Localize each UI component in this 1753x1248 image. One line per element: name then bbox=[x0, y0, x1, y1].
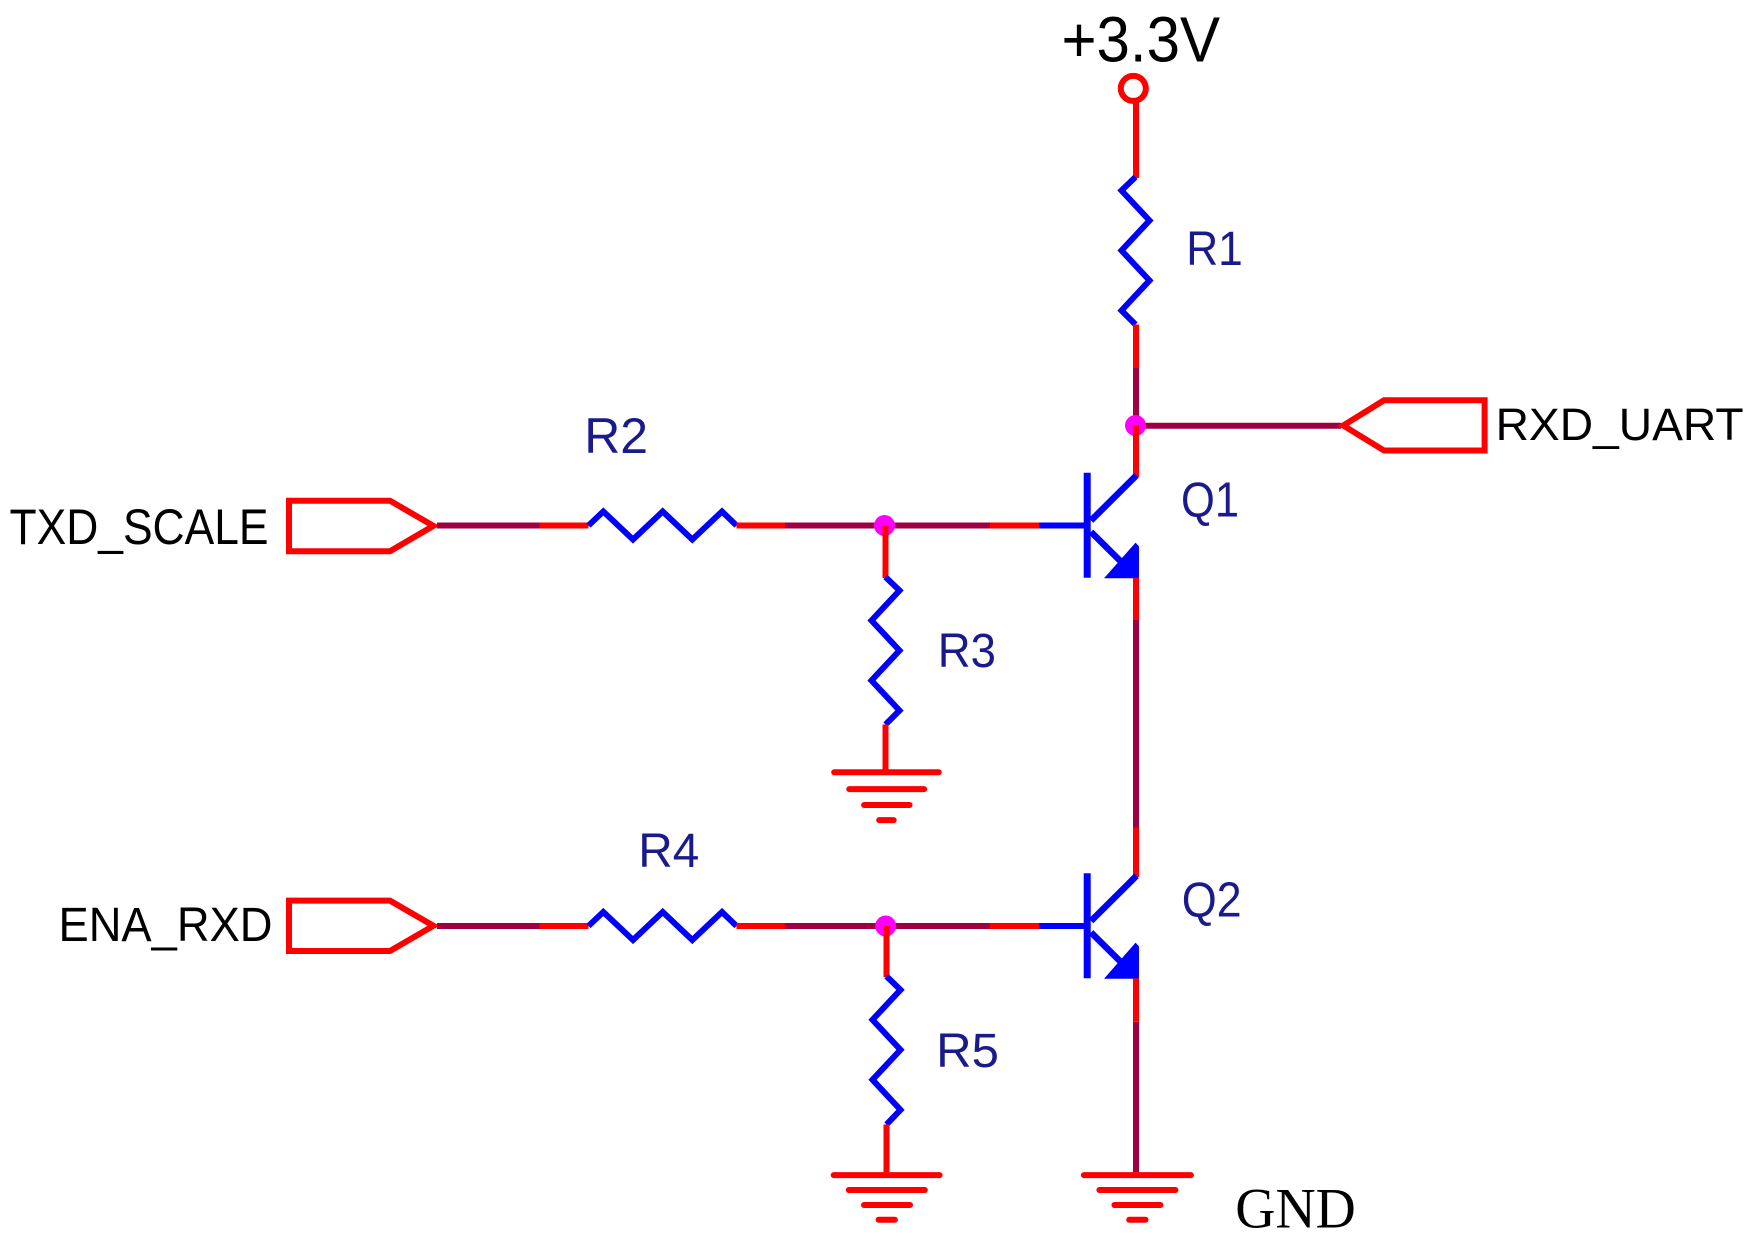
svg-text:ENA_RXD: ENA_RXD bbox=[59, 899, 273, 952]
Q2 base bar bbox=[1084, 873, 1091, 978]
svg-text:TXD_SCALE: TXD_SCALE bbox=[10, 499, 269, 555]
Q1 collector diagonal bbox=[1091, 475, 1137, 520]
svg-text:R3: R3 bbox=[938, 625, 996, 678]
resistor R5 bbox=[873, 976, 901, 1124]
wire node B1 down to R3 bbox=[883, 526, 889, 579]
wire VCC circle to R1 bbox=[1133, 100, 1139, 178]
svg-text:Q2: Q2 bbox=[1182, 874, 1242, 928]
port ENA_RXD bbox=[289, 901, 433, 951]
svg-text:R4: R4 bbox=[638, 825, 699, 878]
resistor R4 bbox=[589, 912, 737, 940]
Q2 emitter arrowhead bbox=[1104, 943, 1139, 979]
wire maroon to Q2 base (red part) bbox=[990, 923, 1039, 929]
svg-text:R5: R5 bbox=[936, 1025, 999, 1078]
Q1 base bar bbox=[1084, 473, 1091, 578]
transistor Q1 bbox=[1039, 473, 1139, 579]
power terminal circle +3.3V bbox=[1121, 76, 1146, 101]
Q1 emitter arrowhead bbox=[1104, 543, 1139, 579]
wire node B2 down to R5 bbox=[884, 926, 890, 977]
wire Q1 emitter to Q2 collector (maroon part) bbox=[1133, 619, 1139, 827]
wire R5 to ground bbox=[884, 1125, 890, 1173]
wire ENA_RXD to R4 (red part) bbox=[540, 923, 589, 929]
svg-text:R1: R1 bbox=[1186, 223, 1243, 276]
wire R3 to ground bbox=[883, 725, 889, 773]
svg-text:Q1: Q1 bbox=[1181, 474, 1239, 528]
Q1 emitter diagonal bbox=[1091, 532, 1133, 574]
svg-text:R2: R2 bbox=[584, 408, 648, 464]
wire node RXD to Q1 collector bbox=[1133, 426, 1139, 478]
wire R1 to node RXD (red part) bbox=[1133, 325, 1139, 369]
node B1 junction bbox=[874, 515, 895, 536]
wire R2 to node B1 (red part) bbox=[737, 523, 786, 529]
resistor R1 bbox=[1122, 177, 1150, 325]
svg-text:GND: GND bbox=[1235, 1178, 1356, 1241]
wire TXD_SCALE to R2 (maroon part) bbox=[437, 523, 540, 529]
ground below R3 bbox=[834, 772, 939, 820]
transistor Q2 bbox=[1039, 873, 1139, 979]
wire to Q2 collector (red part) bbox=[1133, 828, 1139, 878]
wire ENA_RXD to R4 (maroon part) bbox=[437, 923, 540, 929]
wire R2 to node B1 and on to Q1 base (maroon part) bbox=[785, 523, 990, 529]
ground below Q2 bbox=[1084, 1175, 1191, 1220]
svg-text:+3.3V: +3.3V bbox=[1062, 4, 1221, 76]
ground below R5 bbox=[834, 1175, 940, 1220]
wire Q2 emitter to ground (maroon part) bbox=[1133, 1022, 1139, 1172]
wire maroon to Q1 base (red part) bbox=[990, 523, 1039, 529]
wire R4 to node B2 (red part) bbox=[737, 923, 786, 929]
resistor R3 bbox=[872, 577, 900, 725]
node B2 junction bbox=[875, 916, 896, 937]
resistor R2 bbox=[589, 512, 737, 540]
wire node RXD to port RXD_UART bbox=[1136, 423, 1341, 429]
port RXD_UART bbox=[1343, 400, 1484, 450]
node RXD junction bbox=[1125, 415, 1146, 436]
Q2 emitter diagonal bbox=[1091, 932, 1133, 974]
wire R4 to node B2 and on toward Q2 base (maroon part) bbox=[785, 923, 990, 929]
wire R1 to node RXD (maroon part) bbox=[1133, 368, 1139, 426]
wire Q2 emitter to ground (red part) bbox=[1133, 978, 1139, 1022]
wire TXD_SCALE to R2 (red part) bbox=[540, 523, 589, 529]
wire Q1 emitter to Q2 collector (red part) bbox=[1133, 578, 1139, 620]
Q2 base pin wire bbox=[1039, 923, 1085, 929]
svg-text:RXD_UART: RXD_UART bbox=[1496, 399, 1744, 450]
Q2 collector diagonal bbox=[1091, 876, 1137, 921]
port TXD_SCALE bbox=[289, 501, 433, 552]
Q1 base pin wire bbox=[1039, 523, 1085, 529]
